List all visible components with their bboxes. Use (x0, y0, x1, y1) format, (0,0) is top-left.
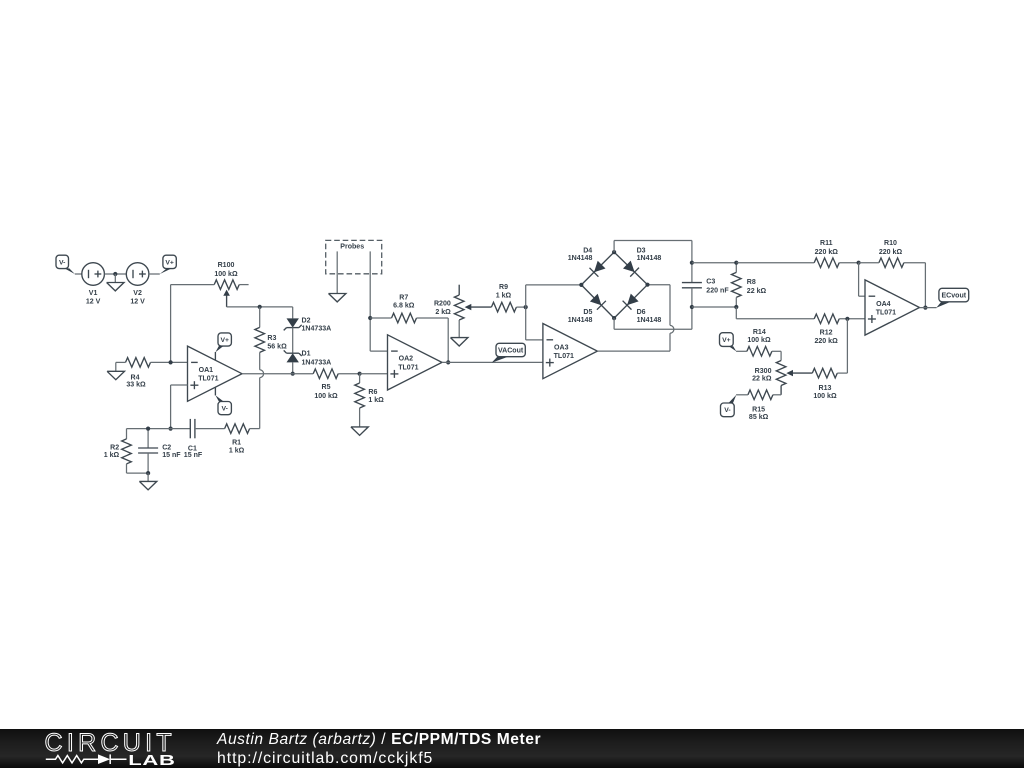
wire to OA3 minus (525, 307, 527, 340)
resistor R7 (392, 295, 417, 323)
resistor R8 (732, 263, 767, 307)
svg-text:6.8 kΩ: 6.8 kΩ (393, 303, 415, 310)
wire C3 top to R8 top (692, 262, 736, 264)
svg-text:R6: R6 (368, 389, 377, 396)
node C3 bottom (690, 305, 694, 309)
svg-text:D4: D4 (583, 247, 592, 254)
diode D5 (568, 294, 606, 324)
potentiometer R200 (434, 285, 491, 338)
svg-text:TL071: TL071 (876, 310, 896, 317)
wire bridge top to C3 top (613, 241, 615, 253)
wire (736, 394, 748, 396)
wire (859, 262, 879, 264)
svg-text:100 kΩ: 100 kΩ (214, 271, 238, 278)
op-amp OA1 (188, 346, 243, 401)
wire OA4 output (920, 307, 937, 309)
resistor R4 (126, 358, 151, 389)
svg-text:1N4733A: 1N4733A (302, 326, 332, 333)
node R8 top (734, 261, 738, 265)
wire (839, 262, 858, 264)
flag V+ (OA1) (215, 333, 231, 352)
svg-text:http://circuitlab.com/cckjkf5: http://circuitlab.com/cckjkf5 (217, 750, 433, 767)
wire (104, 273, 126, 275)
svg-text:33 kΩ: 33 kΩ (126, 381, 146, 388)
svg-text:1 kΩ: 1 kΩ (496, 293, 512, 300)
ground (351, 427, 368, 435)
svg-text:R12: R12 (820, 329, 833, 336)
node OA2 output (446, 360, 450, 364)
svg-text:R10: R10 (884, 240, 897, 247)
wire (516, 306, 525, 308)
wire (292, 328, 294, 353)
svg-text:R300: R300 (755, 368, 772, 375)
svg-text:R5: R5 (321, 384, 330, 391)
node C3 top (690, 261, 694, 265)
resistor R14 (747, 329, 772, 356)
wire (338, 373, 359, 375)
svg-text:1N4148: 1N4148 (637, 317, 662, 324)
svg-text:V+: V+ (220, 337, 229, 344)
flag V- (R15) (721, 395, 737, 417)
ground (107, 274, 124, 291)
wire R100 wiper row (227, 306, 293, 308)
potentiometer R100 (214, 262, 248, 307)
wire R14 to R300 top (772, 350, 781, 352)
node bridge bottom (612, 316, 616, 320)
ground (329, 294, 346, 302)
op-amp OA3 (543, 324, 598, 379)
svg-text:R4: R4 (130, 374, 139, 381)
wire OA1 plus input (171, 384, 188, 386)
wire bridge edge top-right (614, 252, 647, 285)
diode D6 (623, 294, 662, 324)
wire C3 bottom to R8 bottom (692, 306, 736, 308)
svg-text:100 kΩ: 100 kΩ (747, 337, 771, 344)
resistor R9 (491, 284, 516, 312)
wire OA1 output row (242, 373, 313, 375)
wire bridge edge left-top (581, 252, 614, 285)
svg-text:Austin Bartz (arbartz) / EC/PP: Austin Bartz (arbartz) / EC/PPM/TDS Mete… (216, 731, 541, 748)
resistor R1 (225, 424, 250, 455)
svg-text:15 nF: 15 nF (162, 452, 181, 459)
wire to OA2 plus (360, 373, 388, 375)
diode D3 (623, 247, 661, 276)
capacitor C3 (682, 279, 729, 295)
flag V+ (R14) (720, 333, 737, 352)
node D1 output row (291, 372, 295, 376)
svg-text:R200: R200 (434, 301, 451, 308)
svg-text:LAB: LAB (128, 752, 175, 768)
svg-text:OA1: OA1 (199, 367, 214, 374)
svg-text:1N4148: 1N4148 (568, 317, 593, 324)
svg-text:TL071: TL071 (198, 376, 218, 383)
flag V+ (supply right) (160, 255, 176, 274)
node R12-R13 junction (845, 317, 849, 321)
node R11-R10 junction (857, 261, 861, 265)
svg-text:22 kΩ: 22 kΩ (752, 376, 772, 383)
wire bridge edge left-bottom (581, 285, 614, 318)
svg-text:V-: V- (59, 259, 65, 266)
wire OA3 output to bridge right corner with hop (597, 350, 670, 352)
wire (736, 350, 747, 352)
svg-text:56 kΩ: 56 kΩ (267, 344, 287, 351)
svg-text:1N4733A: 1N4733A (302, 359, 332, 366)
svg-text:R8: R8 (747, 279, 756, 286)
node junction V1-V2-ground (113, 272, 117, 276)
svg-text:TL071: TL071 (398, 364, 418, 371)
diode D4 (568, 247, 606, 276)
op-amp OA4 (865, 280, 920, 335)
resistor R5 (313, 369, 338, 400)
wire top row to R11 (736, 262, 814, 264)
voltage source V1 (82, 263, 105, 306)
CircuitLab logo resistor-diode glyph (46, 754, 127, 764)
resistor R11 (814, 240, 839, 267)
svg-text:D3: D3 (637, 247, 646, 254)
svg-text:VACout: VACout (498, 348, 524, 355)
node bridge top (612, 250, 616, 254)
probes dashed box (326, 240, 382, 273)
wire bridge edge right-bottom (614, 285, 647, 318)
zener diode D2 (284, 318, 332, 333)
node R7 left junction (368, 316, 372, 320)
svg-text:C2: C2 (162, 445, 171, 452)
resistor R10 (879, 240, 904, 267)
node R3 top junction (258, 305, 262, 309)
capacitor C1 (184, 419, 203, 459)
svg-text:V2: V2 (133, 290, 142, 297)
node bridge right (645, 283, 649, 287)
svg-text:1N4148: 1N4148 (568, 255, 593, 262)
node C2 top (146, 427, 150, 431)
wire R1 right up to R3 with hop over output row (250, 428, 260, 430)
wire to bridge left corner (525, 285, 527, 307)
resistor R2 (104, 429, 132, 474)
wire OA2 output row to OA3 plus (442, 361, 543, 363)
wire C3 bottom (691, 288, 693, 330)
svg-text:R9: R9 (499, 284, 508, 291)
svg-text:220 kΩ: 220 kΩ (815, 249, 839, 256)
wire R100 left to OA1 inverting node (171, 284, 215, 286)
ground (139, 473, 156, 490)
pin OA1 V- supply (214, 387, 216, 395)
voltage source V2 (126, 263, 149, 306)
svg-text:85 kΩ: 85 kΩ (749, 414, 769, 421)
svg-text:100 kΩ: 100 kΩ (314, 393, 338, 400)
node R9 junction (524, 305, 528, 309)
wire (127, 472, 149, 474)
svg-text:220 kΩ: 220 kΩ (814, 338, 838, 345)
svg-text:15 nF: 15 nF (184, 452, 203, 459)
svg-text:220 kΩ: 220 kΩ (879, 249, 903, 256)
svg-text:Probes: Probes (340, 244, 364, 251)
wire probe left stub (336, 251, 338, 293)
svg-text:OA2: OA2 (399, 356, 414, 363)
wire (195, 428, 225, 430)
svg-text:R3: R3 (267, 335, 276, 342)
wire wiper row to D2 (292, 307, 294, 319)
pin OA1 V+ supply (214, 352, 216, 360)
zener diode D1 (284, 350, 332, 366)
svg-text:2 kΩ: 2 kΩ (435, 309, 451, 316)
svg-text:R100: R100 (218, 262, 235, 269)
wire (839, 318, 865, 320)
svg-text:ECvout: ECvout (941, 293, 966, 300)
svg-text:100 kΩ: 100 kΩ (813, 393, 837, 400)
wire to OA4 minus (858, 263, 860, 297)
wire (149, 273, 160, 275)
flag VACout (492, 343, 526, 363)
svg-text:C3: C3 (706, 279, 715, 286)
svg-text:V1: V1 (89, 290, 98, 297)
wire bottom row (127, 428, 191, 430)
svg-text:V-: V- (724, 407, 730, 414)
wire R300 bottom to R15 (773, 394, 781, 396)
op-amp OA2 (388, 335, 443, 390)
svg-text:1N4148: 1N4148 (637, 255, 662, 262)
svg-text:1 kΩ: 1 kΩ (104, 452, 120, 459)
svg-text:R1: R1 (232, 439, 241, 446)
node R5-R6 junction (358, 372, 362, 376)
svg-text:1 kΩ: 1 kΩ (229, 447, 245, 454)
svg-text:R2: R2 (110, 445, 119, 452)
resistor R13 (812, 368, 837, 400)
resistor R15 (748, 390, 773, 421)
svg-text:D5: D5 (583, 309, 592, 316)
svg-text:220 nF: 220 nF (706, 287, 729, 294)
wire R4 to OA1 minus (151, 361, 188, 363)
node bottom row plus input (169, 427, 173, 431)
resistor R6 (355, 374, 384, 427)
svg-text:D6: D6 (637, 309, 646, 316)
node OA1 inverting input (169, 360, 173, 364)
flag ECvout (936, 288, 968, 308)
wire (75, 273, 82, 275)
wire (370, 317, 391, 319)
wire R8 bottom to R12 row (735, 307, 737, 319)
svg-text:TL071: TL071 (554, 353, 574, 360)
resistor R3 (255, 307, 287, 353)
svg-text:OA3: OA3 (554, 344, 569, 351)
potentiometer R300 (752, 361, 812, 395)
wire R13 to R12 junction (837, 372, 847, 374)
svg-text:D2: D2 (302, 318, 311, 325)
svg-text:R11: R11 (820, 240, 833, 247)
resistor R12 (814, 314, 839, 345)
node OA4 output (923, 306, 927, 310)
svg-text:12 V: 12 V (86, 298, 101, 305)
svg-text:R7: R7 (399, 295, 408, 302)
svg-text:V+: V+ (722, 337, 731, 344)
svg-text:1 kΩ: 1 kΩ (368, 397, 384, 404)
node bridge left (579, 283, 583, 287)
ground (451, 338, 468, 346)
svg-text:22 kΩ: 22 kΩ (747, 288, 767, 295)
svg-text:R13: R13 (819, 385, 832, 392)
wire (116, 361, 126, 363)
ground (107, 371, 124, 379)
flag V- (supply left) (56, 255, 75, 274)
node C2 bottom (146, 471, 150, 475)
wire (292, 362, 294, 373)
svg-text:R15: R15 (752, 406, 765, 413)
svg-text:R14: R14 (753, 329, 766, 336)
svg-text:12 V: 12 V (130, 298, 145, 305)
svg-text:V+: V+ (165, 259, 174, 266)
wire probe right stub to OA2 minus (369, 251, 371, 351)
node R8 bottom (734, 305, 738, 309)
svg-text:V-: V- (221, 406, 227, 413)
svg-text:OA4: OA4 (876, 301, 891, 308)
flag V- (OA1) (215, 395, 231, 415)
svg-text:D1: D1 (302, 351, 311, 358)
wire bridge bottom to C3 bottom row (613, 318, 615, 329)
capacitor C2 (138, 429, 181, 474)
